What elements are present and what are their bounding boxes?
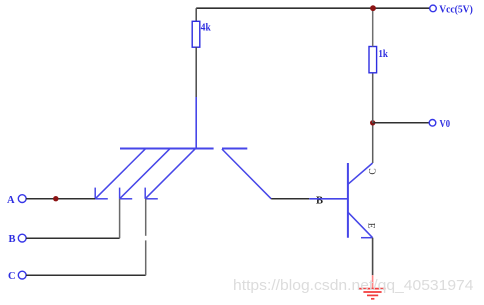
svg-text:1k: 1k <box>378 49 388 60</box>
svg-text:B: B <box>9 234 16 245</box>
wire Q2 emitter down to ground <box>372 238 374 276</box>
wire vertical from rail corner down to R1 top <box>195 8 197 21</box>
wire input C vertical lower segment <box>145 240 147 275</box>
transistor Q1 emitter 1 tick horizontal <box>95 198 108 200</box>
wire input A horizontal <box>26 198 95 200</box>
wire from V0 junction up to R2 bottom <box>372 73 374 123</box>
resistor R1 4k body <box>192 21 200 47</box>
input terminal C circle <box>18 271 26 279</box>
transistor Q1 collector diagonal <box>222 149 271 199</box>
svg-text:B: B <box>316 195 323 206</box>
transistor Q2 base lead <box>309 198 348 200</box>
wire input B vertical up to emitter 2 <box>119 199 121 238</box>
wire input B horizontal <box>26 237 120 239</box>
output terminal V0 circle <box>429 120 436 127</box>
input terminal B circle <box>18 234 26 242</box>
transistor Q2 base bar <box>347 163 349 238</box>
wire V0 horizontal to terminal <box>373 122 430 124</box>
wire top horizontal rail to Vcc <box>196 7 429 9</box>
transistor Q1 emitter 2 diagonal <box>120 149 170 199</box>
wire from Q1 collector to Q2 base <box>271 198 309 200</box>
resistor R2 1k body <box>369 47 377 73</box>
svg-text:A: A <box>7 195 15 206</box>
transistor Q1 multi-emitter: base lead vertical <box>195 97 197 149</box>
svg-text:E: E <box>365 223 375 229</box>
ground bar 3 <box>367 294 378 296</box>
wire Q2 collector vertical up to V0 junction <box>372 123 374 163</box>
transistor Q1 emitter 2 tick vertical <box>119 188 121 199</box>
wire input C horizontal <box>26 274 146 276</box>
junction dot at V0 <box>370 120 375 125</box>
transistor Q1 emitter 3 diagonal <box>145 149 195 199</box>
wire input C vertical upper segment <box>145 199 147 236</box>
transistor Q1 base bar right segment <box>222 148 247 150</box>
svg-text:https://blog.csdn.net/qq_40531: https://blog.csdn.net/qq_40531974 <box>233 278 474 294</box>
transistor Q1 emitter 1 tick vertical <box>94 188 96 199</box>
svg-text:C: C <box>8 271 16 282</box>
wire from R1 bottom down <box>195 47 197 97</box>
transistor Q2 emitter diagonal <box>348 212 373 238</box>
transistor Q1 emitter 2 tick horizontal <box>120 198 133 200</box>
svg-text:Vcc(5V): Vcc(5V) <box>439 4 473 15</box>
transistor Q1 emitter 1 diagonal <box>95 149 145 199</box>
ground bar 4 <box>371 298 374 300</box>
power terminal Vcc circle <box>430 5 437 12</box>
junction dot on Vcc rail <box>370 5 376 11</box>
ground bar 2 <box>363 291 381 293</box>
transistor Q1 base bar left segment <box>120 148 214 150</box>
input terminal A circle <box>18 195 26 203</box>
ground lead red <box>372 275 374 288</box>
transistor Q1 emitter 3 tick horizontal <box>145 198 158 200</box>
svg-text:V0: V0 <box>440 119 451 130</box>
transistor Q1 emitter 3 tick vertical <box>144 188 146 199</box>
svg-text:4k: 4k <box>201 23 211 34</box>
ground bar 1 <box>359 288 386 290</box>
wire from R2 top up to rail junction <box>372 8 374 46</box>
svg-text:C: C <box>369 168 379 174</box>
junction dot on input A wire <box>53 196 58 201</box>
transistor Q2 collector diagonal <box>348 163 373 184</box>
transistor Q2 emitter tick horizontal <box>361 237 373 239</box>
